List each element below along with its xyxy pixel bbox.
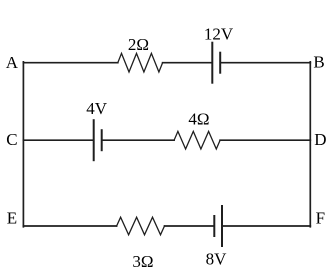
svg-text:3Ω: 3Ω	[132, 252, 153, 271]
node C	[6, 130, 17, 149]
wire top-middle segment R(2Ω) to battery 12V	[163, 62, 212, 64]
resistor 3Ω	[117, 217, 165, 235]
label 2Ω	[128, 35, 149, 54]
wire bottom-middle segment R(3Ω) to battery 8V	[165, 225, 214, 227]
svg-text:E: E	[7, 209, 17, 228]
battery 8V (long plate)	[221, 206, 223, 246]
node F	[316, 208, 325, 227]
label 8V	[206, 249, 228, 268]
battery 4V (short plate)	[101, 130, 103, 150]
wire top-left segment A to R(2Ω)	[23, 62, 117, 64]
svg-text:12V: 12V	[204, 25, 234, 44]
node E	[7, 209, 17, 228]
svg-text:C: C	[6, 130, 17, 149]
battery 4V (long plate)	[93, 120, 95, 160]
label 12V	[204, 25, 234, 44]
battery 12V (short plate)	[219, 53, 221, 73]
svg-text:B: B	[313, 53, 324, 72]
svg-text:A: A	[6, 53, 19, 72]
label 4V	[86, 99, 108, 118]
wire right vertical B-D-F	[309, 62, 311, 227]
node D	[314, 130, 326, 149]
resistor 4Ω	[174, 131, 220, 149]
wire left vertical A-C-E	[22, 62, 24, 227]
svg-text:D: D	[314, 130, 326, 149]
node A	[6, 53, 19, 72]
battery 8V (short plate)	[213, 216, 215, 236]
label 3Ω	[132, 252, 153, 271]
battery 12V (long plate)	[211, 43, 213, 83]
wire middle-right segment R(4Ω) to D	[220, 139, 310, 141]
svg-text:F: F	[316, 208, 325, 227]
label 4Ω	[188, 109, 209, 128]
wire middle segment battery 4V to R(4Ω)	[103, 139, 174, 141]
wire top-right segment battery 12V to B	[221, 62, 310, 64]
wire middle-left segment C to battery 4V	[23, 139, 92, 141]
wire bottom-left segment E to R(3Ω)	[23, 225, 116, 227]
svg-text:8V: 8V	[206, 249, 228, 268]
svg-text:4Ω: 4Ω	[188, 109, 209, 128]
wire bottom-right segment battery 8V to F	[223, 225, 310, 227]
svg-text:4V: 4V	[86, 99, 108, 118]
svg-text:2Ω: 2Ω	[128, 35, 149, 54]
node B	[313, 53, 324, 72]
resistor 2Ω	[118, 53, 163, 72]
